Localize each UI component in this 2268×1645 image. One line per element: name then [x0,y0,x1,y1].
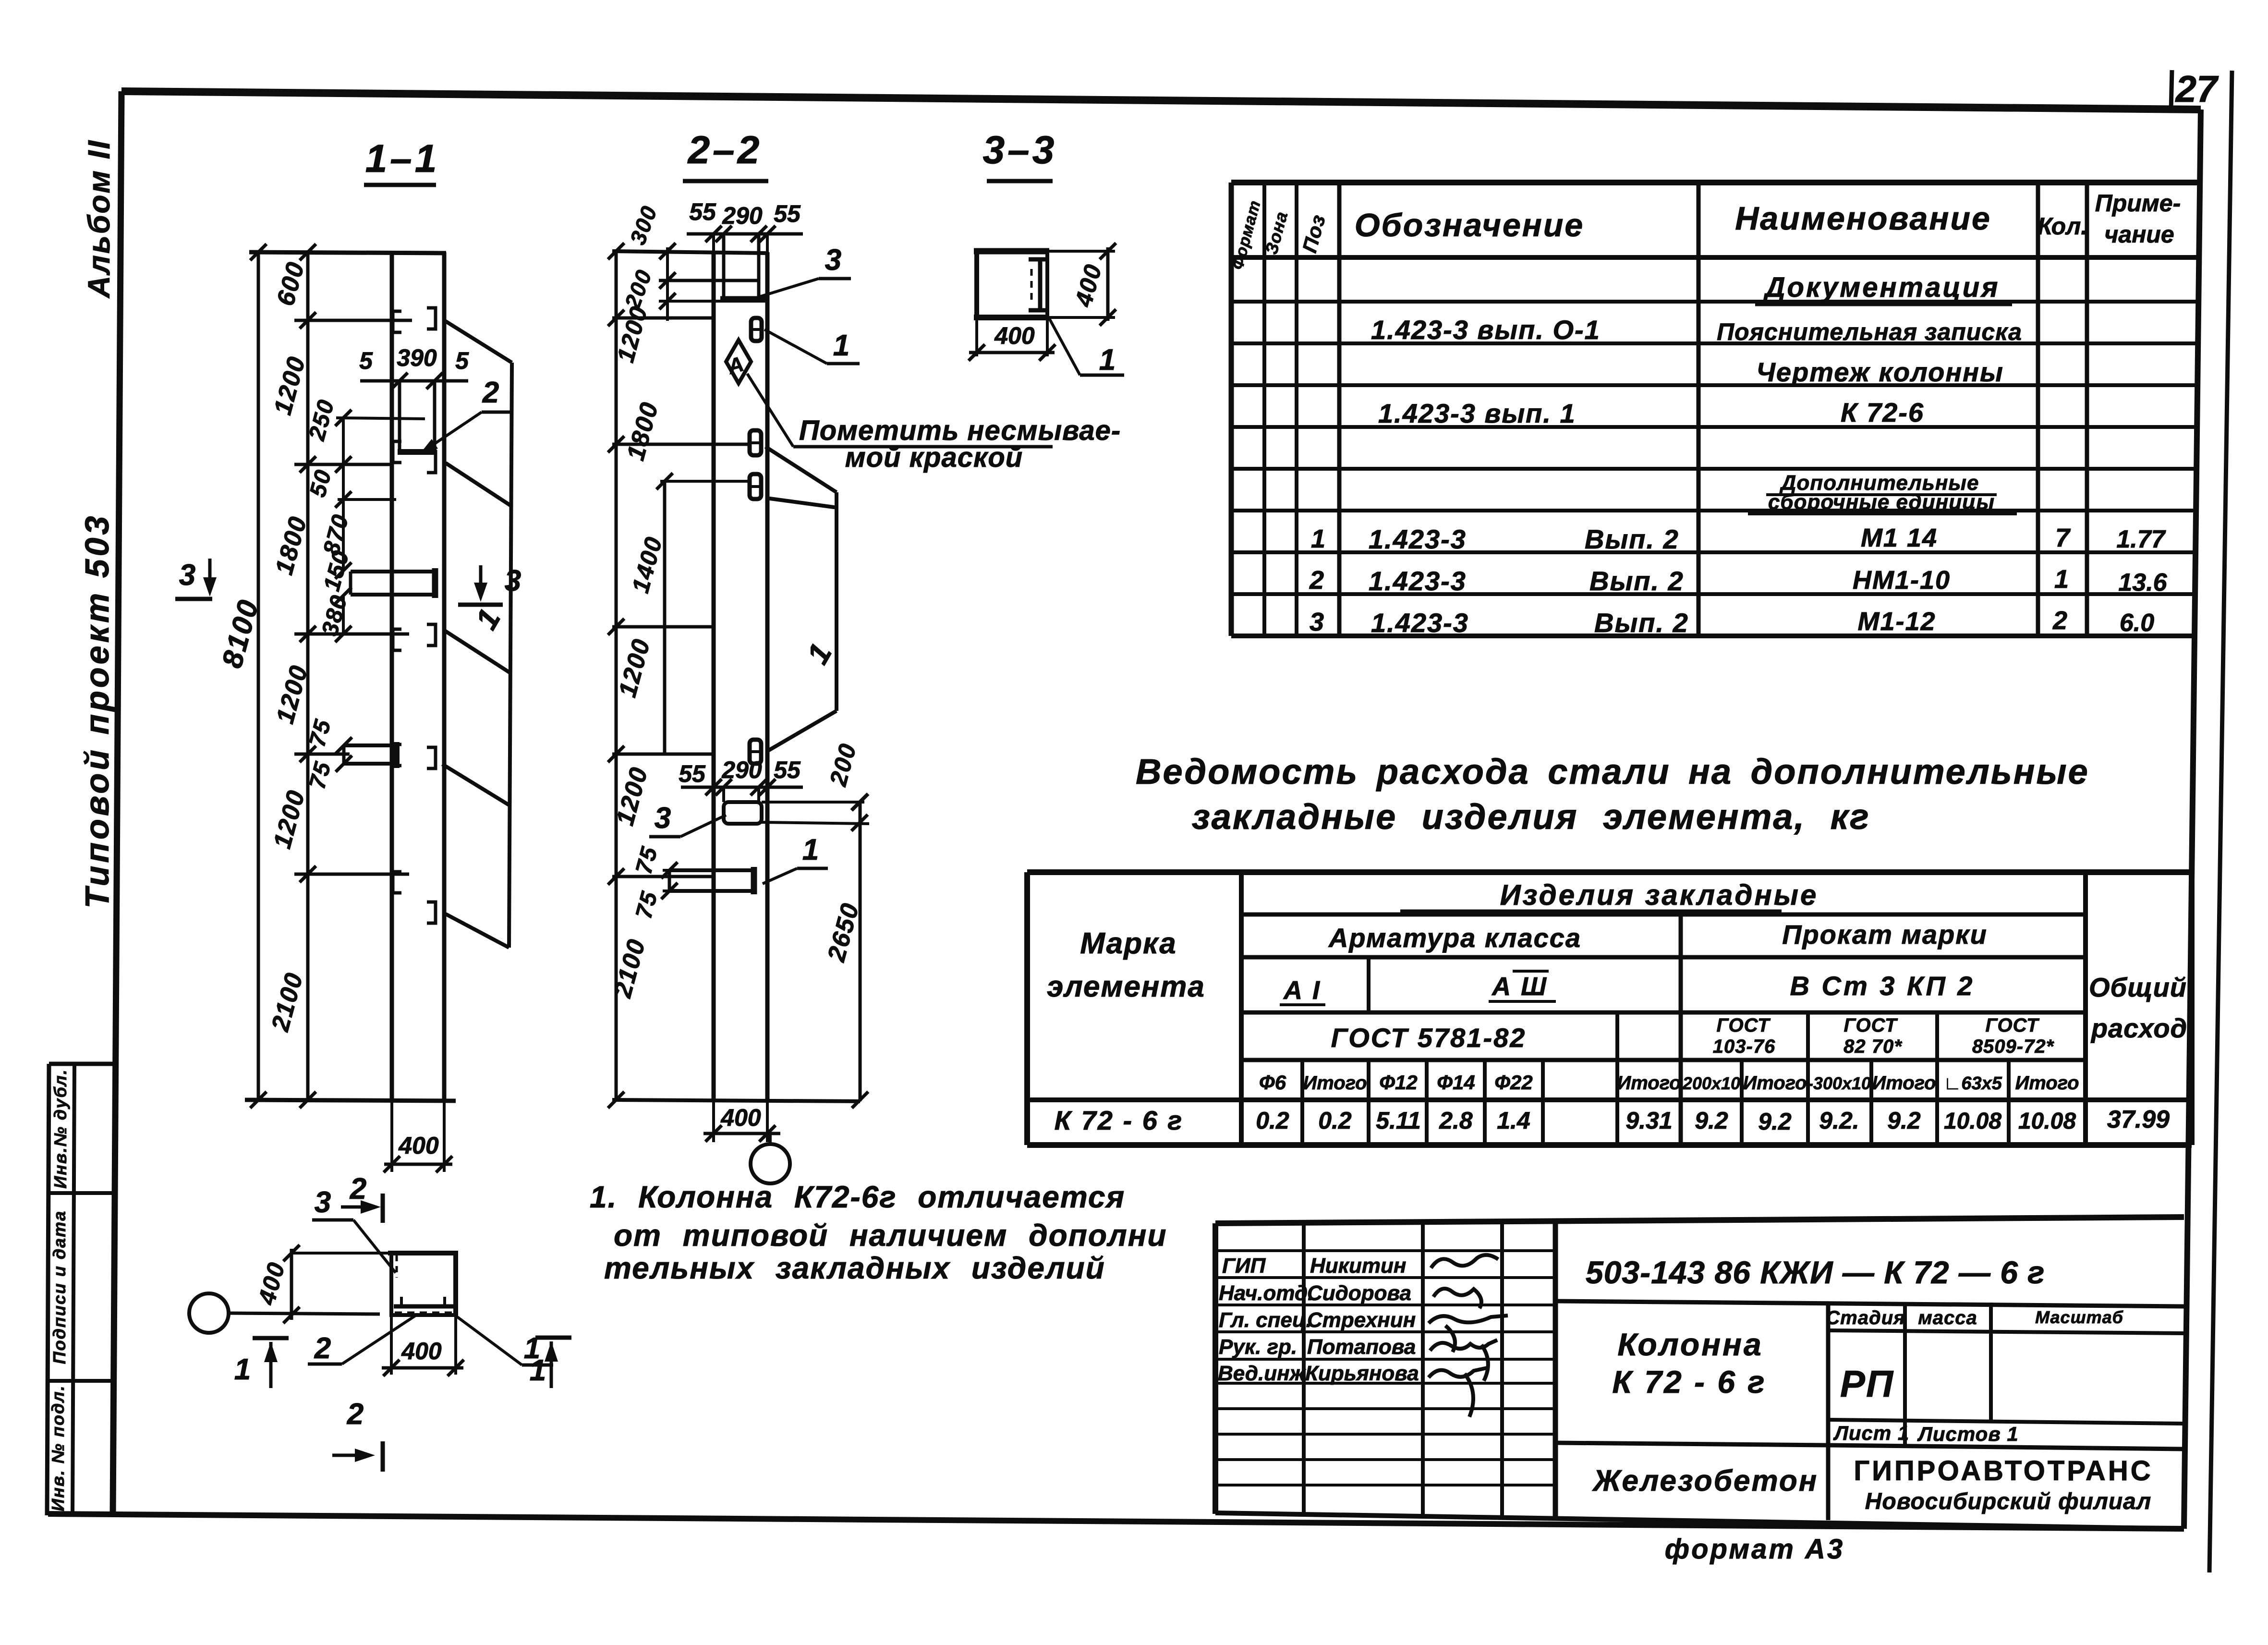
2-2 quality mark diamond A [726,340,751,383]
svg-text:9.31: 9.31 [1625,1107,1672,1134]
svg-text:3: 3 [505,564,521,597]
svg-text:13.6: 13.6 [2118,569,2167,597]
svg-text:Вед.инж: Вед.инж [1218,1362,1307,1385]
1-1 side plate (pos 1) parallelogram [444,320,512,363]
svg-text:Общий: Общий [2089,972,2187,1002]
svg-text:503-143 86 КЖИ — К 72 — 6 г: 503-143 86 КЖИ — К 72 — 6 г [1586,1255,2045,1290]
2-2 side plate (pos 1) fan [765,447,837,492]
svg-text:0.2: 0.2 [1318,1107,1352,1134]
svg-text:НМ1-10: НМ1-10 [1853,566,1951,595]
svg-text:2: 2 [314,1332,331,1365]
svg-text:К 72-6: К 72-6 [1841,397,1924,427]
svg-text:400: 400 [994,322,1035,349]
plan detail square [388,1251,458,1255]
svg-text:Подписи и дата: Подписи и дата [49,1210,69,1364]
2-2 column outline [712,252,716,1101]
svg-text:6.0: 6.0 [2120,609,2154,637]
svg-text:8509-72*: 8509-72* [1972,1036,2055,1057]
svg-text:1.4: 1.4 [1497,1107,1530,1134]
svg-text:1: 1 [524,1332,540,1365]
1-1 section marker 3 (right) [479,565,483,597]
2-2 embed slots mid [750,430,761,455]
svg-text:Ф22: Ф22 [1494,1071,1533,1094]
svg-text:чание: чание [2104,221,2174,248]
1-1 anchor bar (pos 3) mid [351,570,433,573]
svg-text:82 70*: 82 70* [1844,1036,1903,1057]
svg-text:390: 390 [397,344,437,371]
svg-text:от типовой наличием доп: от типовой наличием дополни [614,1218,1167,1253]
3-3 square outline [974,248,1049,255]
1-1 chain dim line [306,250,310,1101]
svg-text:5: 5 [455,347,469,374]
svg-text:1.77: 1.77 [2116,525,2166,553]
svg-text:3: 3 [655,802,671,835]
svg-text:3: 3 [179,559,195,592]
svg-text:Потапова: Потапова [1307,1335,1416,1359]
svg-text:9.2: 9.2 [1695,1107,1728,1134]
svg-text:2: 2 [347,1398,364,1431]
svg-text:масса: масса [1918,1307,1977,1328]
svg-text:В Ст 3 КП 2: В Ст 3 КП 2 [1790,971,1975,1001]
svg-text:1–1: 1–1 [365,137,440,181]
signatures squiggles [1431,1255,1498,1268]
svg-text:К 72 - 6 г: К 72 - 6 г [1055,1105,1184,1135]
svg-text:Итого: Итого [2015,1072,2079,1094]
doc number 503-1 43 86 КЖИ - К 72 - 6 г [1555,1301,2184,1306]
svg-text:400: 400 [398,1132,439,1159]
1-1 embed plate 2 with dims 5 390 5 [360,379,468,383]
svg-text:Стрехнин: Стрехнин [1307,1308,1416,1332]
title block verticals [1302,1223,1306,1515]
svg-text:7: 7 [2055,524,2071,552]
plan detail axis circle [189,1293,229,1333]
svg-text:Обозначение: Обозначение [1355,207,1584,244]
svg-text:Чертеж колонны: Чертеж колонны [1756,357,2004,387]
svg-text:9.2: 9.2 [1758,1108,1792,1135]
svg-text:Ведомость расхода стали на: Ведомость расхода стали на дополнительны… [1136,752,2089,792]
svg-text:10.08: 10.08 [1944,1109,2001,1134]
svg-text:Итого: Итого [1872,1072,1936,1094]
svg-text:5.11: 5.11 [1376,1107,1421,1134]
svg-text:Кирьянова: Кирьянова [1305,1362,1419,1385]
svg-text:Инв. № подл.: Инв. № подл. [48,1385,68,1511]
svg-text:10.08: 10.08 [2018,1109,2076,1134]
svg-text:Железобетон: Железобетон [1592,1464,1818,1498]
svg-text:103-76: 103-76 [1713,1036,1776,1057]
svg-text:0.2: 0.2 [1256,1107,1289,1134]
right sheet edge line [2209,71,2232,1572]
svg-text:2: 2 [350,1172,366,1206]
svg-text:1.423-3: 1.423-3 [1369,566,1467,596]
2-2 top embed plate (pos 3) [722,236,726,301]
svg-text:Пояснительная записка: Пояснительная записка [1717,318,2022,345]
svg-text:2: 2 [1309,566,1324,595]
plan detail bottom dim 400 [390,1317,393,1375]
svg-text:290: 290 [722,202,763,229]
1-1 bottom width dim 400 [390,1101,393,1172]
svg-text:9.2: 9.2 [1887,1107,1921,1134]
plan detail channel embeds [396,1255,398,1278]
2-2 dim 2650 [859,802,862,1101]
svg-text:ГОСТ: ГОСТ [1844,1015,1899,1036]
svg-text:ГИП: ГИП [1222,1254,1266,1278]
svg-text:1.423-3: 1.423-3 [1369,524,1467,554]
svg-text:400: 400 [401,1338,442,1365]
svg-text:расход: расход [2090,1013,2187,1043]
svg-text:тельных закладных изделий: тельных закладных изделий [604,1251,1105,1285]
margin stamp column [47,1064,49,1515]
title block signature rows [1215,1249,1555,1252]
drawing frame [121,91,2201,110]
svg-text:1: 1 [833,329,849,362]
svg-text:формат А3: формат А3 [1665,1534,1844,1565]
svg-text:Прокат марки: Прокат марки [1782,919,1988,950]
2-2 embed slot at 1570 level [750,740,761,764]
svg-text:1: 1 [1099,343,1116,377]
svg-text:К 72 - 6 г: К 72 - 6 г [1612,1364,1766,1400]
plan detail left dim 400 [291,1252,389,1255]
2-2 top dims 55 290 55 [687,232,803,236]
2-2 bottom width dim 400 [712,1101,715,1142]
svg-text:Изделия закладные: Изделия закладные [1500,879,1819,911]
svg-text:Рук. гр.: Рук. гр. [1219,1335,1297,1359]
svg-text:Итого: Итого [1743,1072,1807,1094]
svg-text:3–3: 3–3 [983,128,1057,172]
svg-text:М1-12: М1-12 [1857,607,1936,636]
svg-text:Инв.№ дубл.: Инв.№ дубл. [50,1069,70,1189]
svg-text:Наименование: Наименование [1735,200,1991,237]
1-1 embed marks on right face [427,308,436,329]
svg-text:5: 5 [359,347,373,374]
svg-text:Арматура класса: Арматура класса [1328,923,1581,953]
svg-text:200x10: 200x10 [1682,1073,1740,1093]
svg-text:1: 1 [234,1353,251,1386]
2-2 embed slot below plate [751,318,762,341]
svg-text:закладные изделия элемен: закладные изделия элемента, кг [1192,797,1870,837]
svg-text:Типовой проект 503: Типовой проект 503 [78,513,116,908]
svg-text:3: 3 [315,1186,331,1219]
svg-text:1: 1 [2054,565,2069,594]
2-2 axis circle [751,1144,790,1183]
svg-text:1: 1 [1311,524,1325,553]
stage cells [1826,1303,1831,1520]
3-3 channel section [1029,257,1046,262]
svg-text:9.2.: 9.2. [1819,1107,1859,1134]
2-2 dim 1400 [663,481,667,754]
svg-text:Вып. 2: Вып. 2 [1589,566,1684,596]
1-1 small dims 250 50 [342,418,345,571]
svg-text:55: 55 [774,200,801,227]
svg-text:Ф14: Ф14 [1437,1071,1475,1094]
svg-text:2: 2 [2052,606,2067,635]
svg-text:2: 2 [482,376,499,409]
svg-text:1.423-3: 1.423-3 [1371,608,1469,638]
sheet count row [1828,1420,2184,1424]
svg-text:М1 14: М1 14 [1861,524,1938,552]
svg-text:Ф12: Ф12 [1379,1071,1418,1094]
svg-text:Итого: Итого [1303,1072,1367,1094]
svg-text:ГИПРОАВТОТРАНС: ГИПРОАВТОТРАНС [1854,1455,2153,1487]
tick line left of sheet number [2171,70,2172,110]
svg-text:А I: А I [1283,976,1321,1005]
svg-text:РП: РП [1840,1363,1894,1405]
svg-text:ГОСТ: ГОСТ [1986,1015,2040,1036]
svg-text:3: 3 [825,244,841,277]
svg-text:Масштаб: Масштаб [2035,1307,2124,1327]
svg-text:Лист 1: Лист 1 [1833,1422,1909,1444]
2-2 lower dims 55 290 55 [681,786,803,789]
svg-text:элемента: элемента [1047,970,1205,1003]
title: Колонна К 72 - 6 г [1555,1443,1828,1445]
svg-text:Сидорова: Сидорова [1307,1281,1411,1305]
plan marker 1 (left) [253,1336,289,1340]
3-3 right dim 400 [1047,250,1115,253]
svg-text:37.99: 37.99 [2107,1106,2170,1133]
1-1 level lines [294,319,412,322]
svg-text:Вып. 2: Вып. 2 [1594,608,1689,638]
svg-text:Приме-: Приме- [2095,190,2181,217]
svg-text:ГОСТ 5781-82: ГОСТ 5781-82 [1331,1023,1527,1053]
svg-text:1. Колонна К72-6г отлича: 1. Колонна К72-6г отличается [590,1180,1125,1214]
2-2 level lines [612,317,714,320]
svg-text:Нач.отд.: Нач.отд. [1219,1281,1313,1305]
svg-text:Гл. спец.: Гл. спец. [1219,1308,1312,1332]
plan marker 1 (right) [535,1336,571,1340]
svg-text:сборочные единицы: сборочные единицы [1768,490,1995,514]
1-1 overall dim line 8100 [257,250,260,1101]
svg-text:Вып. 2: Вып. 2 [1585,524,1679,554]
svg-text:55: 55 [689,198,716,225]
2-2 chain dim line [615,249,618,1101]
steel table grid [1027,869,2192,875]
2-2 lower embed plate (pos 3) [724,802,762,824]
title block outer [1215,1217,2184,1223]
svg-text:Ф6: Ф6 [1259,1071,1286,1094]
spec table grid [1231,180,2198,185]
svg-text:55: 55 [774,756,801,783]
svg-text:55: 55 [679,760,706,787]
svg-text:Итого: Итого [1617,1072,1681,1094]
svg-text:2.8: 2.8 [1439,1107,1473,1134]
svg-text:А Ш: А Ш [1491,972,1548,1001]
3-3 bottom dim 400 [975,319,978,356]
svg-text:1: 1 [802,833,819,866]
2-2 leader to paint note [747,374,793,447]
svg-text:Марка: Марка [1080,927,1176,960]
svg-text:ГОСТ: ГОСТ [1717,1015,1771,1036]
svg-text:1.423-3 вып. 1: 1.423-3 вып. 1 [1378,398,1576,428]
1-1 column outline [390,252,394,1101]
svg-text:400: 400 [720,1104,761,1131]
svg-text:Новосибирский филиал: Новосибирский филиал [1865,1489,2152,1514]
svg-text:Кол.: Кол. [2038,213,2087,240]
svg-text:∟63x5: ∟63x5 [1943,1073,2002,1094]
svg-text:3: 3 [1310,608,1324,636]
svg-text:2–2: 2–2 [687,128,763,172]
svg-text:Колонна: Колонна [1617,1327,1763,1362]
svg-text:1.423-3 вып. О-1: 1.423-3 вып. О-1 [1371,315,1601,345]
svg-text:-300x10: -300x10 [1807,1073,1871,1093]
svg-text:мой краской: мой краской [845,442,1023,473]
svg-text:Листов 1: Листов 1 [1917,1423,2019,1445]
svg-text:Никитин: Никитин [1310,1254,1406,1278]
1-1 embed marks on left face [393,311,401,332]
svg-text:27: 27 [2175,68,2219,110]
svg-text:Альбом II: Альбом II [82,139,116,299]
svg-text:Стадия: Стадия [1826,1307,1905,1328]
svg-text:Документация: Документация [1763,272,2000,303]
svg-text:290: 290 [721,756,762,783]
